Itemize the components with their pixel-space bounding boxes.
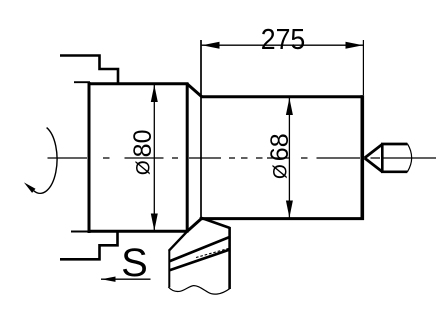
svg-text:Ø68: Ø68	[266, 133, 294, 179]
svg-text:Ø80: Ø80	[129, 130, 157, 176]
svg-text:275: 275	[261, 24, 306, 56]
svg-text:S: S	[121, 241, 148, 285]
